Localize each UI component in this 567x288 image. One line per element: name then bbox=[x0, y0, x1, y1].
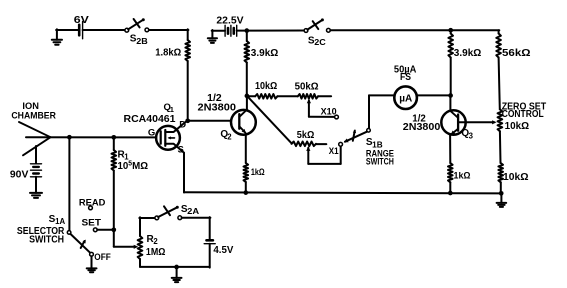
wire (50k open end) bbox=[318, 95, 331, 97]
wire bbox=[212, 30, 225, 32]
switch S2A bbox=[155, 206, 182, 220]
wire bbox=[237, 30, 305, 32]
ground (6V battery) bbox=[52, 29, 62, 45]
node (SET / R1) bbox=[111, 227, 116, 232]
svg-text:22.5V: 22.5V bbox=[216, 15, 244, 26]
label Q3 bbox=[461, 128, 473, 141]
svg-text:1.8kΩ: 1.8kΩ bbox=[155, 47, 181, 58]
svg-text:1A: 1A bbox=[55, 217, 65, 226]
switch S1B bbox=[344, 129, 371, 143]
svg-text:CHAMBER: CHAMBER bbox=[11, 111, 56, 122]
wiper (50k) bbox=[307, 99, 334, 117]
svg-text:X1: X1 bbox=[329, 146, 339, 157]
wire bbox=[499, 58, 500, 110]
svg-text:1: 1 bbox=[170, 105, 174, 114]
node (1k bottom) bbox=[243, 190, 248, 195]
wire bbox=[35, 177, 37, 193]
wire bbox=[149, 29, 189, 40]
wire (bottom rail) bbox=[184, 192, 502, 193]
resistor 56k bbox=[496, 34, 501, 58]
potentiometer R2 bbox=[138, 236, 143, 259]
wire (Q2 emitter) bbox=[245, 134, 247, 163]
wire bbox=[498, 30, 500, 33]
switch S2C bbox=[304, 18, 330, 32]
svg-text:2: 2 bbox=[227, 132, 232, 141]
terminal READ bbox=[89, 206, 93, 210]
label R1 bbox=[118, 149, 130, 161]
node (Q3 1k bottom) bbox=[448, 191, 453, 196]
label 1kΩ (Q3) bbox=[454, 171, 471, 182]
wire bbox=[245, 182, 247, 193]
svg-text:10kΩ: 10kΩ bbox=[503, 172, 529, 183]
wire (Q3 base) bbox=[458, 120, 497, 124]
battery 22.5V bbox=[225, 25, 237, 36]
wire bbox=[140, 244, 210, 268]
wire (to R2 wiper) bbox=[114, 245, 138, 249]
wire bbox=[35, 146, 37, 163]
node (10k bottom / ground) bbox=[499, 191, 504, 196]
ground (bottom rail) bbox=[497, 193, 507, 207]
wire bbox=[91, 256, 93, 268]
wire (chamber to S1A) bbox=[68, 137, 70, 230]
label SET bbox=[82, 217, 102, 228]
label 10kΩ bbox=[255, 81, 277, 92]
wire bbox=[450, 58, 452, 96]
svg-text:CONTROL: CONTROL bbox=[502, 109, 544, 120]
terminal X10 bbox=[335, 115, 339, 119]
label CHAMBER bbox=[11, 111, 56, 122]
ground (R2 loop) bbox=[172, 267, 182, 282]
wire bbox=[500, 182, 502, 193]
potentiometer 5k bbox=[292, 142, 317, 147]
wire bbox=[113, 171, 115, 247]
label 1kΩ (Q2) bbox=[251, 167, 265, 178]
label RANGE bbox=[366, 148, 394, 159]
label 1MΩ bbox=[146, 247, 166, 258]
svg-text:105MΩ: 105MΩ bbox=[118, 161, 149, 172]
svg-text:10kΩ: 10kΩ bbox=[505, 121, 529, 132]
svg-text:1MΩ: 1MΩ bbox=[146, 247, 166, 258]
wire bbox=[368, 95, 370, 128]
node (Q1 drain / 1.8k) bbox=[185, 118, 190, 123]
label 3.9kΩ bbox=[251, 48, 278, 59]
label S2C bbox=[308, 35, 326, 47]
wire (Q1 drain to Q2 base) bbox=[188, 120, 232, 122]
label 10^5 MΩ bbox=[118, 161, 149, 172]
wire (gate line) bbox=[26, 136, 156, 138]
label 2N3800 (Q2) bbox=[198, 103, 237, 114]
terminal X1 bbox=[339, 142, 343, 146]
resistor 1.8k bbox=[185, 40, 190, 61]
node (chamber output) bbox=[67, 135, 72, 140]
label 90V bbox=[10, 170, 29, 181]
wire (5k open end) bbox=[316, 143, 326, 145]
wiper (5k) bbox=[306, 146, 341, 164]
label Q2 bbox=[220, 129, 232, 142]
battery 6V bbox=[79, 22, 82, 39]
potentiometer 50k bbox=[298, 94, 318, 99]
label 6V bbox=[74, 15, 89, 26]
label 4.5V bbox=[213, 245, 233, 256]
svg-text:FS: FS bbox=[400, 72, 411, 83]
label SWITCH bbox=[366, 157, 394, 168]
label D bbox=[179, 120, 186, 131]
wire bbox=[113, 137, 115, 150]
transistor Q2 bbox=[231, 110, 256, 135]
wire (Q1 source) bbox=[183, 153, 185, 193]
potentiometer 10k (zero set) bbox=[498, 109, 503, 131]
label 10kΩ (bottom right) bbox=[503, 172, 529, 183]
node (22.5V / 3.9k) bbox=[244, 28, 249, 33]
wire (top rail) bbox=[330, 29, 499, 31]
label R2 bbox=[147, 234, 159, 246]
label RCA40461 bbox=[124, 114, 176, 125]
svg-text:D: D bbox=[179, 120, 186, 131]
svg-text:2A: 2A bbox=[187, 207, 199, 216]
label 10kΩ (zero set) bbox=[505, 121, 529, 132]
wire (diagonal) bbox=[248, 97, 292, 143]
svg-text:SWITCH: SWITCH bbox=[29, 235, 64, 246]
transistor Q1 (MOSFET RCA40461) bbox=[156, 121, 187, 153]
label Q1 bbox=[164, 102, 174, 114]
label S bbox=[178, 145, 184, 156]
svg-text:3: 3 bbox=[469, 131, 474, 140]
label X1 bbox=[329, 146, 339, 157]
wire bbox=[417, 94, 451, 96]
svg-text:5kΩ: 5kΩ bbox=[297, 130, 315, 141]
wire bbox=[187, 61, 189, 121]
resistor R1 bbox=[112, 150, 117, 171]
wire bbox=[246, 63, 248, 96]
wire bbox=[499, 131, 502, 163]
label ZERO SET bbox=[502, 102, 547, 113]
node (rail / 3.9k) bbox=[448, 28, 453, 33]
resistor 1k (Q3) bbox=[448, 163, 453, 182]
label S2B bbox=[130, 33, 148, 46]
resistor 1k (Q2) bbox=[244, 163, 249, 182]
svg-text:2N3800: 2N3800 bbox=[403, 122, 441, 133]
terminal OFF bbox=[90, 252, 94, 256]
label S2A bbox=[181, 204, 200, 216]
svg-text:1kΩ: 1kΩ bbox=[454, 171, 471, 182]
resistor 3.9k (left) bbox=[245, 41, 250, 63]
ion chamber bbox=[19, 122, 51, 155]
label SWITCH bbox=[29, 235, 64, 246]
battery 90V bbox=[31, 164, 42, 177]
svg-text:2B: 2B bbox=[136, 37, 148, 46]
svg-text:50kΩ: 50kΩ bbox=[295, 82, 319, 93]
wire bbox=[182, 217, 211, 239]
label 1/2 (Q2) bbox=[207, 93, 222, 104]
label X10 bbox=[321, 107, 337, 118]
wire bbox=[246, 31, 248, 41]
wire bbox=[369, 94, 395, 96]
transistor Q3 bbox=[441, 110, 465, 135]
wire bbox=[277, 95, 297, 97]
svg-text:OFF: OFF bbox=[94, 252, 111, 263]
wire bbox=[449, 96, 451, 112]
wire (SET) bbox=[97, 229, 114, 231]
label G bbox=[148, 128, 155, 139]
svg-text:90V: 90V bbox=[10, 170, 29, 181]
label READ bbox=[79, 198, 106, 209]
label 1.8kΩ bbox=[155, 47, 181, 58]
switch S2B bbox=[125, 18, 149, 32]
svg-text:6V: 6V bbox=[74, 15, 89, 26]
svg-text:READ: READ bbox=[79, 198, 106, 209]
wire bbox=[450, 30, 452, 33]
label 3.9kΩ (right) bbox=[454, 48, 482, 59]
wire bbox=[449, 182, 451, 193]
svg-text:3.9kΩ: 3.9kΩ bbox=[251, 48, 278, 59]
wire bbox=[247, 95, 255, 97]
svg-text:2C: 2C bbox=[314, 38, 326, 47]
svg-text:SWITCH: SWITCH bbox=[366, 157, 394, 168]
battery 4.5V bbox=[204, 240, 215, 243]
label 50uA FS bbox=[394, 65, 417, 84]
label 5kΩ bbox=[297, 130, 315, 141]
resistor 10k bbox=[255, 94, 277, 99]
label 50kΩ bbox=[295, 82, 319, 93]
label ION bbox=[22, 101, 39, 112]
svg-text:4.5V: 4.5V bbox=[213, 245, 233, 256]
wire bbox=[83, 29, 125, 31]
meter M1 50uA bbox=[394, 86, 417, 109]
node (meter / Q3 collector) bbox=[448, 93, 453, 98]
svg-text:10kΩ: 10kΩ bbox=[255, 81, 277, 92]
wire bbox=[139, 217, 155, 219]
wire bbox=[56, 29, 78, 31]
label S1A bbox=[49, 214, 66, 226]
resistor 10k (bottom right) bbox=[498, 163, 503, 182]
label 56kΩ bbox=[502, 48, 531, 59]
svg-text:X10: X10 bbox=[321, 107, 337, 118]
wire bbox=[139, 217, 141, 267]
wire (Q2 collector) bbox=[246, 96, 248, 110]
ground (90V) bbox=[30, 193, 42, 198]
label 2N3800 (Q3) bbox=[403, 122, 441, 133]
label 1/2 (Q3) bbox=[412, 113, 426, 124]
node (loop ground) bbox=[174, 265, 179, 270]
svg-text:56kΩ: 56kΩ bbox=[502, 48, 531, 59]
resistor 3.9k (right) bbox=[448, 34, 453, 58]
svg-text:SET: SET bbox=[82, 217, 102, 228]
svg-text:RCA40461: RCA40461 bbox=[124, 114, 176, 125]
svg-text:S: S bbox=[178, 145, 184, 156]
terminal SET bbox=[93, 228, 97, 232]
svg-text:2: 2 bbox=[153, 237, 158, 246]
node (Q2 collector) bbox=[245, 94, 250, 99]
ground (22.5V battery) bbox=[208, 30, 217, 43]
label SELECTOR bbox=[17, 226, 65, 237]
label CONTROL bbox=[502, 109, 544, 120]
svg-text:2N3800: 2N3800 bbox=[198, 103, 237, 114]
label S1B bbox=[366, 137, 383, 149]
label 22.5V bbox=[216, 15, 244, 26]
svg-text:3.9kΩ: 3.9kΩ bbox=[454, 48, 482, 59]
svg-text:µA: µA bbox=[399, 93, 412, 104]
label OFF bbox=[94, 252, 111, 263]
wire (Q3 emitter) bbox=[449, 135, 451, 163]
node (R1 top) bbox=[111, 135, 116, 140]
svg-text:1kΩ: 1kΩ bbox=[251, 167, 265, 178]
switch S1A bbox=[67, 231, 90, 253]
ground (OFF) bbox=[87, 268, 97, 272]
